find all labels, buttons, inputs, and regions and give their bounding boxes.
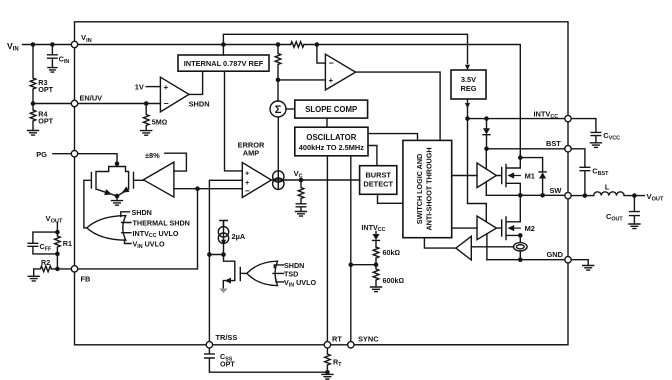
wire INTVCC external (571, 119, 596, 133)
svg-text:SHDN: SHDN (132, 208, 152, 217)
junction 2uA-FET (221, 252, 226, 257)
svg-text:VOUT: VOUT (46, 214, 63, 225)
svg-text:RT: RT (333, 358, 342, 369)
wire INTVCC down feed (468, 119, 487, 222)
svg-text:INTERNAL 0.787V REF: INTERNAL 0.787V REF (184, 59, 264, 68)
chip outline U1 (75, 22, 569, 345)
ground below CIN (48, 68, 57, 73)
junction VOUT (632, 193, 637, 198)
node INTVCC divider label (361, 223, 385, 233)
svg-text:−: − (245, 187, 250, 196)
wire sensor to reverse comparator (471, 246, 513, 248)
wire BST rail (487, 148, 565, 150)
transistor TRSS pulldown (223, 255, 240, 288)
node THERMAL SHDN input label (133, 219, 190, 228)
wire 1V to comparator (146, 86, 160, 88)
wire FB riser (78, 189, 198, 269)
svg-text:DETECT: DETECT (363, 180, 393, 189)
node VOUT label (647, 192, 664, 203)
wire RT to oscillator (326, 156, 328, 342)
wire PG internal (78, 154, 117, 164)
junction SYNC divider (349, 262, 354, 267)
svg-text:5MΩ: 5MΩ (152, 117, 168, 126)
junction VOUT-R1-CFF (55, 230, 60, 235)
svg-text:VIN UVLO: VIN UVLO (133, 239, 165, 249)
pin PG (71, 151, 77, 157)
node ERROR AMP label (238, 141, 265, 158)
transistor PG pulldown pair (91, 164, 133, 201)
junction CBST-SW (583, 193, 588, 198)
svg-text:BURST: BURST (365, 171, 391, 180)
wire sigma to slope comp (286, 108, 295, 110)
ground below compensation (296, 212, 307, 217)
capacitor CVCC (591, 131, 620, 143)
diode BST charge (483, 119, 490, 149)
svg-text:3.5V: 3.5V (461, 75, 476, 84)
transistor M2 (496, 195, 534, 242)
wire SYNC external (354, 344, 565, 346)
node sigma summer (270, 101, 286, 117)
capacitor CIN (48, 45, 70, 68)
svg-text:RT: RT (332, 335, 342, 344)
svg-text:THERMAL SHDN: THERMAL SHDN (133, 219, 190, 228)
wire SW rail (486, 194, 564, 196)
op-amp M2 driver (477, 216, 496, 240)
junction BST-diode (484, 147, 489, 152)
transistor M1 (496, 157, 534, 196)
svg-text:600kΩ: 600kΩ (383, 276, 405, 285)
junction PG (115, 161, 120, 166)
wire plus input current comparator (278, 79, 325, 81)
box BURST DETECT (360, 166, 397, 195)
svg-text:SYNC: SYNC (358, 335, 379, 344)
diode INTVCC divider (373, 232, 380, 248)
node INTVCC pin label (534, 110, 559, 121)
ground below 600k (371, 287, 382, 292)
diode M1 body (539, 172, 546, 195)
wire sigma to error amp output (277, 117, 279, 189)
svg-text:REG: REG (460, 84, 476, 93)
box INTERNAL 0.787V REF (178, 55, 269, 71)
svg-text:INTVCC: INTVCC (361, 223, 385, 233)
wire oscillator to burst detect (368, 146, 377, 166)
junction FB node (55, 267, 60, 272)
gate OR shutdown 3-input (247, 261, 284, 285)
svg-text:GND: GND (547, 250, 564, 259)
svg-text:M1: M1 (525, 172, 535, 181)
op-amp error amplifier (242, 163, 271, 198)
node VIN pin label (81, 33, 92, 44)
svg-text:R1: R1 (63, 239, 72, 248)
capacitor COUT (606, 196, 639, 224)
node SYNC pin label (358, 335, 379, 344)
svg-text:COUT: COUT (606, 212, 623, 223)
node SHDN input label (132, 208, 152, 217)
arrow REG output (465, 103, 470, 108)
box 3.5V REG (451, 70, 486, 99)
node plus-minus 8 percent label (145, 151, 160, 160)
pin TR/SS (206, 342, 212, 348)
capacitor CBST (580, 166, 609, 195)
node VIN external label (7, 41, 19, 53)
node RT pin label (332, 335, 342, 344)
svg-text:+: + (329, 76, 334, 85)
wire FB to error amp input (174, 188, 242, 190)
svg-text:SHDN: SHDN (189, 99, 210, 108)
pin EN/UV (71, 100, 77, 106)
svg-text:OPT: OPT (220, 359, 235, 368)
svg-text:±8%: ±8% (145, 151, 160, 160)
svg-text:INTVCC: INTVCC (534, 110, 559, 121)
wire GND rail (487, 259, 565, 261)
node VC label (294, 169, 303, 180)
capacitor CFF (28, 232, 57, 254)
svg-text:400kHz TO 2.5MHz: 400kHz TO 2.5MHz (299, 143, 364, 152)
ground below COUT (629, 224, 640, 229)
junction INTVCC-diode (484, 116, 489, 121)
inductor L (594, 182, 624, 195)
wire gate to OR2 (240, 272, 246, 274)
wire REG output (467, 99, 469, 119)
junction M1 drain (518, 155, 523, 160)
resistor sense vertical (275, 45, 281, 80)
svg-text:CFF: CFF (40, 242, 52, 253)
svg-text:+: + (164, 83, 169, 92)
node VIN UVLO2 label (284, 278, 316, 288)
node PG external label (36, 150, 47, 159)
wire R1R2 to FB (56, 254, 58, 269)
pin VIN (71, 41, 77, 47)
wire M2 driver ground (486, 234, 488, 260)
wire reverse comparator to switch logic (424, 238, 456, 248)
wire error amp output to VC (271, 179, 301, 181)
wire current comparator output to switch logic (356, 72, 441, 140)
resistor sense top horizontal (291, 42, 304, 48)
wire switch logic to M2 driver (452, 227, 477, 229)
junction sense left (276, 42, 281, 47)
op-amp M1 driver (477, 163, 496, 188)
node VOUT feedback label (46, 214, 63, 225)
svg-text:VIN UVLO: VIN UVLO (284, 278, 316, 288)
resistor 5M (143, 104, 167, 131)
svg-text:2µA: 2µA (232, 232, 246, 241)
svg-text:R2: R2 (41, 258, 50, 267)
capacitor compensation (296, 204, 306, 212)
ground below R4 (28, 131, 39, 136)
svg-text:VIN: VIN (7, 41, 19, 53)
wire oscillator to switch logic (368, 134, 418, 141)
junction diode-SW (540, 193, 545, 198)
junction VIN-REF (221, 42, 226, 47)
box OSCILLATOR (295, 127, 368, 156)
svg-text:CIN: CIN (59, 55, 70, 66)
junction M2 source GND (518, 257, 523, 262)
svg-text:INTVCC UVLO: INTVCC UVLO (133, 229, 179, 239)
svg-text:Σ: Σ (275, 104, 282, 116)
wire SW external (571, 195, 594, 197)
svg-text:60kΩ: 60kΩ (383, 248, 401, 257)
wire switch logic to M1 driver (452, 175, 477, 177)
wire VIN external (23, 44, 72, 46)
node gm output double circle (273, 171, 284, 190)
wire VIN internal rail (78, 45, 521, 157)
wire VC to burst detect (301, 179, 360, 181)
node TSD label (284, 269, 298, 278)
pin SYNC (348, 342, 354, 348)
resistor 600k (373, 265, 404, 287)
junction EN/UV-R3R4 (31, 101, 36, 106)
arrow into REG (465, 65, 470, 70)
wire M1 driver ground to SW (485, 182, 487, 196)
svg-text:OPT: OPT (38, 85, 53, 94)
box SWITCH LOGIC (403, 140, 452, 237)
resistor R3 OPT (30, 45, 53, 104)
wire 2uA to TRSS (209, 244, 223, 255)
capacitor CSS OPT (205, 348, 328, 372)
ground below R2 (28, 276, 39, 281)
junction M1 source SW (518, 193, 523, 198)
wire SHDN comparator output to REF (189, 71, 203, 94)
wire BST to driver supply (485, 149, 487, 169)
node GND pin label (547, 250, 564, 259)
resistor compensation (298, 180, 304, 204)
wire slope comp to oscillator (326, 118, 328, 127)
junction VC (299, 178, 304, 183)
wire minus input current comparator (317, 45, 326, 64)
junction EN/UV-5M (144, 101, 149, 106)
svg-text:+: + (245, 178, 250, 187)
node VIN UVLO input label (133, 239, 165, 249)
svg-text:SWITCH LOGIC AND: SWITCH LOGIC AND (415, 154, 424, 224)
junction divider mid (374, 262, 379, 267)
svg-text:M2: M2 (525, 224, 535, 233)
ground below CVCC (590, 143, 601, 148)
junction R1-R2-CFF (55, 252, 60, 257)
pin GND (565, 257, 571, 263)
current source 2uA (218, 221, 246, 245)
junction TRSS-2uA (207, 252, 212, 257)
node SHDN2 label (284, 261, 304, 270)
wire left gate to OR output (84, 180, 92, 227)
wire right gate to window comparator (134, 179, 144, 181)
svg-text:OPT: OPT (38, 117, 53, 126)
svg-text:VOUT: VOUT (647, 192, 664, 203)
resistor 60k (373, 247, 400, 265)
wire drain to body diode (520, 158, 542, 172)
svg-text:1V: 1V (135, 83, 144, 92)
svg-text:L: L (605, 182, 610, 191)
wire VOUT to R1 (56, 222, 58, 232)
resistor R2 (34, 258, 52, 276)
op-amp window comparator (143, 162, 174, 197)
junction VIN-CIN (50, 42, 55, 47)
junction RT ground (325, 370, 330, 375)
wire TRSS to error amp input (209, 180, 242, 341)
ground gray below TRSS FET (219, 289, 227, 293)
wire INTVCC rail (468, 118, 565, 120)
wire GND external (571, 260, 588, 266)
wire burst detect to switch logic (378, 194, 403, 203)
wire FB external (51, 268, 71, 270)
svg-text:CBST: CBST (592, 166, 609, 177)
node SW pin label (550, 186, 562, 195)
svg-text:TR/SS: TR/SS (216, 333, 238, 342)
gate OR fault 4-input (84, 212, 131, 244)
ground below GND pin (583, 266, 594, 271)
op-amp reverse current comparator (456, 236, 471, 260)
wire BST external (571, 149, 585, 167)
node INTVCC UVLO input label (133, 229, 179, 239)
svg-text:CVCC: CVCC (603, 131, 620, 142)
ground below 5M (141, 131, 152, 136)
wire SYNC to divider (351, 264, 376, 266)
node SHDN label (189, 99, 210, 108)
node 1V reference (135, 83, 144, 92)
resistor R1 (55, 232, 72, 254)
junction sense right (315, 42, 320, 47)
wire 8 percent reference hook (165, 153, 187, 171)
svg-text:VIN: VIN (81, 33, 92, 44)
pin SW (565, 192, 571, 198)
resistor R4 OPT (30, 104, 53, 131)
svg-text:−: − (164, 99, 169, 109)
svg-text:PG: PG (36, 150, 47, 159)
junction current sum node (276, 78, 281, 83)
svg-text:+: + (245, 168, 250, 177)
box SLOPE COMP (295, 100, 368, 118)
wire EN/UV external (33, 103, 71, 105)
current sensor ellipse (514, 243, 528, 260)
pin BST (565, 146, 571, 152)
wire REF to error amp input (225, 71, 243, 171)
svg-text:EN/UV: EN/UV (80, 94, 103, 103)
op-amp SHDN comparator (160, 77, 189, 112)
svg-text:AMP: AMP (243, 148, 259, 157)
wire EN/UV internal (78, 103, 161, 105)
pin RT (324, 342, 330, 348)
ground below RT (322, 374, 333, 379)
svg-text:−: − (329, 58, 334, 68)
junction FB branch (195, 186, 200, 191)
node TR/SS pin label (216, 333, 238, 342)
ground below PG pair (112, 201, 123, 206)
svg-text:ANTI-SHOOT THROUGH: ANTI-SHOOT THROUGH (425, 147, 434, 230)
node EN/UV pin label (80, 94, 103, 103)
wire PG stub (53, 153, 71, 155)
wire VIN bypass to 3.5V REG (223, 34, 467, 63)
pin FB (71, 266, 90, 284)
pin INTVCC (565, 115, 571, 121)
svg-text:SW: SW (550, 186, 562, 195)
wire L to VOUT (624, 195, 644, 197)
wire SYNC to oscillator (350, 156, 352, 342)
junction VIN-R3 (31, 42, 36, 47)
resistor RT (325, 348, 343, 372)
svg-text:OSCILLATOR: OSCILLATOR (306, 133, 356, 142)
svg-text:FB: FB (81, 274, 91, 283)
op-amp current comparator (325, 54, 355, 90)
svg-text:BST: BST (546, 139, 561, 148)
wire sum node to sigma (277, 80, 279, 101)
svg-text:SLOPE COMP: SLOPE COMP (305, 105, 357, 114)
junction REG-INTVCC (465, 116, 470, 121)
node BST pin label (546, 139, 561, 148)
